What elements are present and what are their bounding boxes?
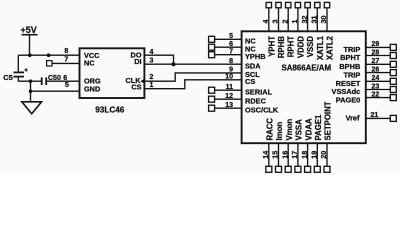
svg-text:1: 1 [150,82,154,89]
svg-text:C5: C5 [3,73,13,82]
junction at +5V [28,53,32,57]
junction C50 node [29,79,33,83]
svg-text:20: 20 [319,151,328,159]
svg-text:16: 16 [280,151,289,159]
svg-text:XATL2: XATL2 [326,35,335,60]
pin 2 top [280,2,291,31]
svg-text:VSSA: VSSA [295,119,304,141]
junction DO/DI [172,62,176,66]
svg-text:10: 10 [225,74,233,81]
svg-text:6: 6 [229,41,233,48]
svg-text:SERIAL: SERIAL [245,88,273,97]
svg-text:14: 14 [261,151,270,159]
svg-text:NC: NC [84,59,95,68]
svg-text:SA866AE/AM: SA866AE/AM [282,64,332,73]
svg-text:Vref: Vref [346,114,361,123]
svg-text:7: 7 [229,49,233,56]
pin 21 (Vref) [366,112,397,121]
wire DO pin4 [144,55,173,64]
pin 5 (NC) [209,33,242,43]
svg-text:+5V: +5V [21,25,37,35]
pin 1 top [290,2,301,31]
svg-text:SDA: SDA [245,62,261,71]
svg-text:PAGE0: PAGE0 [336,95,361,104]
wire to C50 [31,80,42,82]
svg-text:VDDD: VDDD [296,36,305,58]
wire CS to CS [144,80,241,89]
svg-text:Vmon: Vmon [285,119,294,141]
svg-text:RPHT: RPHT [287,36,296,57]
pin 19 bottom [310,143,321,172]
svg-text:13: 13 [225,102,233,109]
pin 24 (RESET) [366,75,397,84]
svg-text:XATL1: XATL1 [316,35,325,60]
pin 7 NC terminal square [47,61,52,66]
svg-text:RACC: RACC [266,118,275,141]
pin 6 (NC) [209,41,242,50]
IC U1 93LC46 [80,48,145,114]
capacitor C5 [3,68,28,82]
top pin labels of U2 (rotated) [267,35,334,60]
svg-text:24: 24 [372,75,380,82]
right pin labels of U2 [332,45,361,122]
pin 28 (BPHT) [366,49,397,58]
svg-text:SETPOINT: SETPOINT [324,101,333,140]
svg-text:93LC46: 93LC46 [95,106,125,115]
svg-text:VDAA: VDAA [304,118,313,140]
svg-text:5: 5 [65,82,69,89]
svg-text:32: 32 [300,16,309,24]
svg-text:30: 30 [319,16,328,24]
pin 29 (TRIP) [366,41,397,50]
wire DI to SDA [144,63,241,65]
svg-text:11: 11 [226,84,234,91]
svg-text:3: 3 [150,57,154,64]
node on VCC rail [47,53,51,57]
svg-text:RDEC: RDEC [245,97,267,106]
pin 17 bottom [290,143,301,172]
svg-text:22: 22 [372,91,380,98]
pin 32 top [300,2,311,31]
pin 16 bottom [280,143,291,172]
pin 3 top [271,2,281,31]
svg-text:26: 26 [372,66,380,73]
svg-text:28: 28 [372,49,380,56]
wire NC stub to pin 7 [52,62,80,64]
pin 20 bottom [319,143,330,172]
ground [22,102,42,114]
pin 18 bottom [300,143,311,172]
pin 26 (TRIP) [366,66,397,75]
svg-text:31: 31 [310,16,319,24]
svg-text:29: 29 [372,41,380,48]
pin 12 (RDEC) [209,93,242,102]
svg-text:PAGE1: PAGE1 [314,114,323,141]
wire CLK to SCL [144,73,241,81]
svg-text:3: 3 [271,20,280,24]
pin 11 (SERIAL) [209,84,242,93]
+5V supply [21,25,38,55]
pin 30 top [319,2,329,31]
svg-text:21: 21 [371,112,379,119]
capacitor C50 [42,75,61,85]
svg-text:DI: DI [134,57,141,66]
pin 27 (BPHB) [366,58,397,67]
svg-text:15: 15 [271,151,280,159]
IC U2 SA866AE/AM [242,31,366,143]
svg-text:8: 8 [229,58,233,65]
svg-text:27: 27 [372,58,380,65]
svg-text:4: 4 [261,20,270,24]
svg-text:23: 23 [372,83,380,90]
svg-text:17: 17 [290,151,299,159]
svg-text:6: 6 [63,75,67,82]
bottom pin labels of U2 (rotated) [266,101,333,140]
svg-text:OSC/CLK: OSC/CLK [245,106,279,115]
wire GND to pin 5 [31,90,80,92]
wire C5 top branch [17,55,19,72]
pin 13 (OSC/CLK) [209,102,242,111]
pin 23 (VSSAdc) [366,83,397,92]
wire C50 to ORG pin 6 [47,80,80,82]
wire VCC rail to pin 8 [18,54,79,56]
pin 22 (PAGE0) [366,91,397,100]
pin 14 bottom [261,143,272,172]
pin 31 top [310,2,321,31]
svg-text:18: 18 [300,151,309,159]
wire C5 bottom branch [18,77,30,81]
svg-text:RPHB: RPHB [277,36,286,58]
pin 7 (YPHB) [209,49,242,58]
wire ground drop [30,81,32,101]
svg-text:CS: CS [245,77,255,86]
svg-text:2: 2 [150,74,154,81]
svg-text:GND: GND [84,84,100,93]
svg-text:1: 1 [290,20,299,24]
svg-text:YPHT: YPHT [267,36,276,57]
svg-text:Imon: Imon [275,122,284,141]
svg-text:12: 12 [225,93,233,100]
svg-text:CS: CS [131,83,141,92]
svg-text:TRIP: TRIP [343,70,360,79]
svg-text:YPHB: YPHB [245,52,266,61]
junction GND node [29,89,33,93]
svg-text:5: 5 [229,33,233,40]
pin 15 bottom [271,143,282,172]
svg-text:7: 7 [64,57,68,64]
svg-text:19: 19 [310,151,319,159]
svg-text:BPHT: BPHT [340,53,361,62]
svg-text:VSSD: VSSD [306,36,315,58]
left pin labels of U2 [245,36,279,114]
pin 4 top [261,2,272,31]
svg-text:2: 2 [280,20,289,24]
svg-text:8: 8 [64,48,68,55]
